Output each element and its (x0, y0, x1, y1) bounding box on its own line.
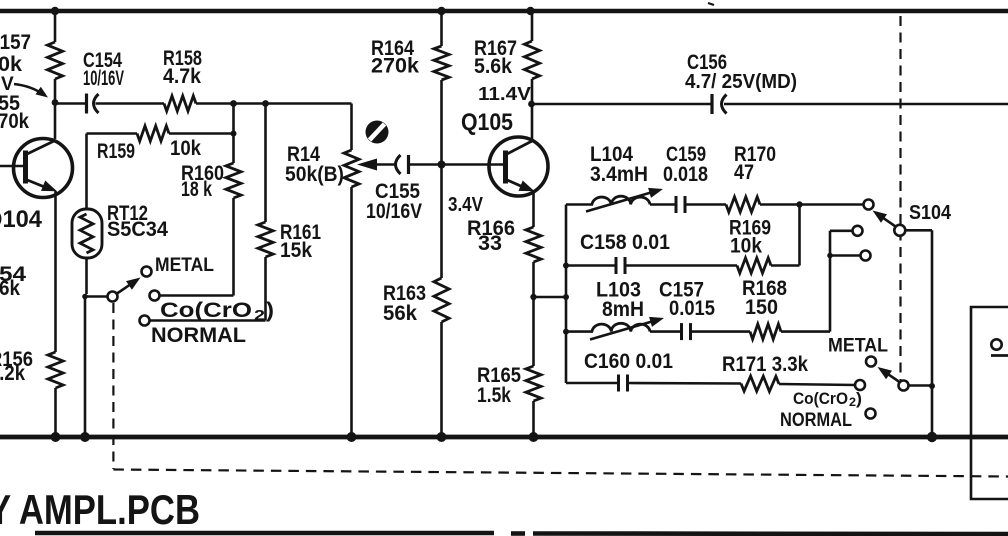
wire to NORMAL contact (264, 257, 267, 321)
wire Q104 base (0, 165, 24, 168)
svg-text:18 k: 18 k (181, 178, 212, 201)
svg-text:R159: R159 (97, 140, 135, 163)
svg-text:Y AMPL.PCB: Y AMPL.PCB (0, 486, 200, 533)
resistor R169 (737, 258, 771, 273)
svg-text:15k: 15k (280, 239, 312, 262)
resistor R164 (434, 46, 449, 80)
resistor R161 (258, 222, 273, 257)
switch S2 NORMAL contact (866, 409, 876, 419)
svg-text:5.6k: 5.6k (474, 55, 512, 78)
capacitor C155 (396, 155, 401, 174)
wire to R14 (350, 104, 353, 151)
S104 dashes (899, 16, 901, 380)
svg-text:NORMAL: NORMAL (780, 410, 852, 431)
svg-text:4.7/ 25V(MD): 4.7/ 25V(MD) (685, 71, 797, 93)
svg-text:Co(CrO: Co(CrO (160, 299, 252, 322)
resistor R156 (48, 352, 63, 388)
wire S104 pole out (905, 229, 932, 232)
svg-text:70k: 70k (0, 110, 29, 133)
svg-text:0.018: 0.018 (663, 163, 708, 186)
svg-text:10k: 10k (730, 235, 762, 258)
callout arrow (14, 84, 44, 95)
wire emitter to bus (534, 296, 567, 299)
svg-text:R171 3.3k: R171 3.3k (722, 353, 808, 376)
wire S2 pole (909, 384, 933, 387)
svg-text:): ) (856, 389, 862, 408)
stray mark (708, 3, 714, 5)
svg-text:270k: 270k (371, 55, 419, 78)
wire R160 column (232, 104, 235, 164)
resistor R163 (434, 278, 449, 322)
wire Q105 emitter (532, 191, 535, 227)
resistor R159 (137, 126, 169, 141)
capacitor C159 (675, 196, 678, 213)
resistor R171 (741, 376, 779, 392)
wire RT12 top (85, 134, 88, 211)
svg-text:10k: 10k (0, 53, 22, 76)
wire (196, 102, 352, 105)
switch S1 dashes (112, 303, 114, 469)
svg-text:56k: 56k (383, 302, 417, 325)
svg-text:150: 150 (745, 296, 778, 319)
svg-text:S5C34: S5C34 (107, 218, 168, 241)
svg-text:3.4mH: 3.4mH (590, 163, 648, 186)
svg-text:11.4V: 11.4V (478, 84, 531, 104)
resistor R167 (524, 41, 539, 79)
capacitor C156 (710, 94, 713, 114)
svg-text:Co(CrO: Co(CrO (793, 389, 848, 408)
svg-text:1.5k: 1.5k (477, 384, 511, 407)
wire row4 (566, 382, 619, 385)
wire Q104 emitter down (54, 191, 57, 352)
wire rows 1-2 join (798, 205, 801, 266)
svg-text:Q104: Q104 (0, 206, 43, 233)
switch S1 pole (108, 292, 118, 302)
svg-text:METAL: METAL (828, 336, 888, 357)
svg-text:6k: 6k (0, 277, 20, 300)
section divider line (35, 531, 494, 536)
wire R164 column (437, 7, 445, 15)
svg-text:S104: S104 (909, 202, 952, 224)
inductor L103 (592, 323, 650, 331)
svg-text:50k(B): 50k(B) (285, 163, 344, 186)
S104 pole (894, 225, 905, 236)
wire to S104 mid contact (830, 230, 853, 233)
svg-text:METAL: METAL (155, 255, 214, 276)
wire to Co contact (232, 198, 235, 296)
wire collector out (532, 103, 713, 106)
svg-text:2: 2 (254, 307, 265, 324)
transistor Q104 (14, 139, 73, 198)
wire row1 (566, 203, 593, 206)
svg-text:R157: R157 (0, 31, 31, 54)
screw adjust symbol (366, 121, 389, 144)
svg-text:10k: 10k (170, 137, 201, 160)
svg-text:0.015: 0.015 (669, 297, 715, 320)
switch S2 Co contact (855, 380, 865, 390)
connector box (971, 307, 1008, 499)
svg-text:2.2k: 2.2k (0, 362, 25, 385)
wire left column top (54, 11, 57, 42)
resistor R170 (726, 197, 760, 212)
mechanical link dashes (113, 470, 1008, 477)
wire R159 row (87, 132, 138, 135)
svg-text:3.4V: 3.4V (448, 194, 484, 216)
svg-text:10/16V: 10/16V (366, 200, 422, 223)
S104 low contact (861, 251, 871, 261)
thermistor RT12 (72, 209, 102, 258)
switch S1 METAL contact (142, 267, 152, 277)
node base Q105 (438, 161, 446, 169)
svg-text:): ) (266, 299, 274, 322)
resistor R168 (750, 324, 781, 339)
jack symbol (991, 339, 1001, 349)
wire base bias (55, 102, 87, 105)
node 11.4V (528, 101, 535, 108)
potentiometer R14 (344, 150, 359, 187)
wire R167 column (526, 7, 534, 15)
svg-text:C158 0.01: C158 0.01 (580, 231, 670, 254)
capacitor C157 (680, 323, 683, 340)
svg-text:33: 33 (478, 232, 502, 255)
svg-text:8mH: 8mH (602, 298, 644, 321)
resistor R158 (164, 96, 196, 111)
S104 mid contact (853, 226, 863, 236)
svg-text:Q105: Q105 (461, 109, 513, 136)
svg-text:10/16V: 10/16V (83, 67, 124, 90)
wire to switch pole (85, 295, 108, 298)
switch S2 METAL contact (866, 357, 876, 367)
resistor R157 (47, 42, 62, 79)
switch S1 Co contact (150, 291, 160, 301)
top supply rail (0, 9, 1008, 14)
wire row3 riser (829, 231, 832, 332)
wire row3 (566, 330, 593, 333)
wire R161 column (264, 104, 267, 223)
resistor R166 (526, 227, 541, 262)
svg-text:4.7k: 4.7k (163, 65, 201, 88)
switch S2 pole (899, 381, 909, 391)
wire R14 down (350, 187, 353, 437)
inductor L104 (592, 196, 650, 204)
resistor R160 (226, 163, 241, 198)
capacitor C154 (85, 94, 88, 114)
svg-text:NORMAL: NORMAL (151, 324, 246, 347)
resistor R165 (526, 366, 541, 401)
svg-text:C160 0.01: C160 0.01 (584, 350, 673, 373)
switch S2 arrow (886, 373, 900, 382)
wire RT12 bottom (85, 258, 88, 294)
bottom ground rail (0, 435, 1008, 440)
S104 top contact (864, 200, 874, 210)
switch S1 arrow (117, 283, 132, 293)
wire to S104 low contact (830, 254, 861, 257)
capacitor C160 (617, 375, 620, 392)
transistor Q105 (489, 137, 548, 196)
wire (54, 388, 57, 437)
node junction C154 (52, 99, 59, 106)
capacitor C158 (615, 257, 618, 274)
wire (54, 79, 57, 139)
switch S1 NORMAL contact (140, 316, 150, 326)
wire row2 (566, 264, 616, 267)
filter left bus (565, 205, 568, 384)
R14 wiper arrow (357, 159, 377, 171)
svg-text:47: 47 (734, 161, 754, 184)
S104 arrow (881, 216, 896, 226)
wire Q105 base (442, 163, 504, 166)
